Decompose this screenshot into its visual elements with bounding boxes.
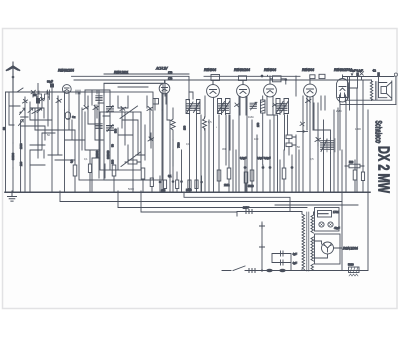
svg-text:40µF: 40µF: [334, 226, 340, 230]
resistor R15: [176, 172, 179, 192]
capacitor C17: [286, 135, 296, 155]
grid components V7: [343, 72, 395, 110]
wire mesh left2: [30, 96, 85, 160]
switch lever S5: [121, 152, 141, 167]
svg-text:5000: 5000: [128, 187, 134, 191]
wire right verticals: [357, 80, 368, 270]
wire mesh left3: [30, 120, 58, 165]
resistor R16: [188, 180, 191, 189]
resistor R1: [73, 130, 77, 191]
svg-text:1000: 1000: [355, 127, 361, 131]
svg-text:0,1: 0,1: [186, 142, 190, 146]
switch lever S4: [120, 106, 138, 119]
contact pair K4: [45, 91, 50, 100]
trimmer C28: [273, 103, 278, 107]
trimmer C7: [120, 107, 126, 111]
svg-text:30000: 30000: [11, 152, 15, 160]
wire cap verticals: [272, 254, 291, 271]
wire T2 legs: [219, 115, 236, 192]
speaker LS: [379, 73, 398, 104]
contact K1: [260, 224, 265, 229]
svg-text:0,1µF: 0,1µF: [240, 156, 247, 160]
tube V4: [237, 80, 250, 115]
wire T1 legs: [189, 92, 197, 192]
svg-text:REN904: REN904: [264, 68, 276, 72]
sub bus 0: [184, 192, 290, 212]
arrow A2: [37, 108, 42, 112]
IF transformer T1: [186, 100, 200, 115]
node junction: [261, 75, 263, 77]
wire verticals d: [321, 96, 342, 270]
resistor R10: [250, 170, 254, 191]
trimmer C5: [83, 106, 89, 110]
trimmer C13: [148, 133, 154, 148]
capacitor C24: [276, 260, 291, 265]
resistor R13: [353, 160, 357, 191]
wire speaker rails: [340, 100, 396, 104]
coil L4: [107, 125, 114, 132]
output tube V7: [337, 75, 349, 102]
grid box V6: [310, 74, 325, 78]
resistor R5: [163, 180, 166, 192]
trimmer C6: [93, 106, 99, 110]
svg-text:170: 170: [168, 76, 173, 80]
trimmer C19: [306, 99, 312, 103]
capacitor C14: [244, 160, 247, 191]
brand text Schaleco: [373, 121, 383, 144]
tube V6: [304, 79, 317, 131]
wire long verticals a: [201, 96, 209, 192]
svg-text:2MΩ: 2MΩ: [224, 183, 230, 187]
svg-text:270: 270: [256, 122, 260, 127]
resistor R20 zigzag: [203, 117, 207, 130]
wire V7 legs: [340, 88, 357, 191]
bottom wire: [302, 270, 368, 272]
ground GND1: [8, 191, 17, 201]
antenna A: [7, 62, 20, 92]
wire verticals c: [296, 76, 299, 191]
svg-text:30000: 30000: [95, 150, 99, 158]
trimmer C25: [40, 98, 45, 102]
resistor R2: [112, 165, 116, 191]
band filter box F1: [79, 92, 153, 180]
trimmer on input: [31, 90, 36, 94]
wire v6 area: [303, 96, 318, 191]
wire filter mesh 3: [118, 96, 150, 191]
resistor R17: [195, 180, 198, 189]
svg-text:4µF: 4µF: [293, 261, 298, 265]
contact K2: [260, 245, 265, 250]
rectifier box B2: [315, 234, 341, 264]
trimmer C4: [56, 96, 62, 103]
IF transformer T3: [276, 99, 289, 115]
svg-text:300: 300: [111, 159, 115, 164]
trimmer C32: [19, 120, 24, 126]
wire V2 legs: [155, 94, 173, 191]
capacitor C23: [276, 251, 291, 256]
capacitor C3: [50, 80, 54, 191]
tube V2: [159, 80, 170, 120]
svg-text:REN904: REN904: [302, 68, 314, 72]
resistor R9: [244, 172, 248, 191]
sub bus 1: [60, 191, 342, 202]
resistor R8: [227, 168, 231, 191]
transformer TR secondary 3: [311, 264, 314, 270]
svg-text:100: 100: [254, 137, 259, 141]
capacitor C21: [266, 269, 272, 272]
svg-text:300: 300: [222, 147, 227, 151]
main ground bus: [5, 191, 370, 193]
svg-text:2MΩ: 2MΩ: [336, 109, 342, 113]
svg-text:0,5: 0,5: [310, 157, 314, 161]
tube V3: [207, 81, 220, 193]
coil L3: [107, 106, 114, 113]
capacitor C11: [172, 150, 175, 192]
trimmer C29: [300, 122, 305, 126]
junction dot B: [302, 130, 304, 132]
trimmer C31: [20, 108, 26, 114]
junction dot: [261, 269, 263, 271]
mains switch S3: [222, 266, 302, 273]
svg-text:REN904: REN904: [204, 68, 216, 72]
coil L1: [12, 143, 14, 168]
wire rectifier: [314, 241, 342, 258]
resistor R6 zigzag: [171, 108, 175, 140]
svg-text:0,5: 0,5: [208, 120, 212, 124]
sub bus 3: [141, 191, 237, 212]
svg-text:220V: 220V: [243, 206, 249, 210]
choke L7: [321, 138, 336, 153]
wire left frame: [5, 92, 7, 191]
transformer TR secondary 1: [311, 212, 315, 233]
svg-text:80µF: 80µF: [47, 80, 53, 84]
capacitor C22: [279, 269, 285, 272]
sub bus 1b: [275, 204, 358, 206]
svg-text:180: 180: [182, 125, 186, 130]
transformer TR core: [307, 212, 309, 271]
wire mesh left: [21, 92, 58, 191]
svg-text:170Ω: 170Ω: [333, 211, 339, 214]
rectifier tube V8: [322, 242, 334, 254]
svg-text:RENS1264: RENS1264: [234, 68, 250, 72]
transformer TR secondary 2: [311, 237, 314, 261]
wire L6 legs: [262, 96, 264, 165]
resistor R14: [349, 267, 360, 276]
band filter box F2: [104, 83, 163, 180]
svg-text:0,1: 0,1: [168, 174, 172, 178]
coil L8 column: [96, 92, 102, 178]
svg-text:4Ω: 4Ω: [373, 69, 376, 73]
transformer TR primary: [302, 212, 305, 271]
wire verticals b: [239, 96, 257, 191]
coil L2: [20, 141, 22, 165]
capacitor C9: [125, 160, 141, 164]
coil L9: [250, 102, 257, 110]
coil L6: [261, 100, 266, 113]
wire L2 ends: [20, 120, 22, 191]
output transformer T4: [370, 80, 377, 101]
wire T3 legs: [267, 115, 288, 191]
wire grid rail: [204, 76, 300, 84]
grid box V4: [239, 76, 247, 84]
tube V1: [62, 85, 71, 110]
resistor R18: [88, 150, 91, 192]
svg-text:0,1µF 0,1µF: 0,1µF 0,1µF: [257, 156, 271, 160]
capacitor C10: [159, 176, 162, 192]
svg-text:7500: 7500: [176, 142, 180, 148]
band filter inner box: [100, 112, 141, 170]
resistor R11: [282, 150, 286, 191]
label speckle group: [47, 109, 361, 191]
wire to V5 grid: [268, 75, 271, 84]
wire top rail 2: [72, 76, 190, 100]
capacitor C26: [200, 176, 203, 192]
grid cap V2: [153, 99, 159, 105]
svg-text:RGN 1064: RGN 1064: [343, 247, 358, 251]
resistor R7: [217, 170, 221, 191]
tube V5: [264, 76, 277, 115]
svg-text:RENS1254: RENS1254: [58, 69, 74, 73]
capacitor C2: [36, 84, 40, 121]
wire mains vertical: [261, 222, 263, 270]
capacitor C18: [291, 155, 294, 191]
svg-text:•: •: [216, 126, 217, 129]
wire L1 to bus: [12, 168, 14, 191]
svg-text:ACH 2V: ACH 2V: [155, 67, 168, 71]
svg-text:50µF 0,1µF: 50µF 0,1µF: [350, 69, 363, 73]
svg-text:5000: 5000: [186, 188, 192, 192]
svg-text:0,1: 0,1: [84, 157, 88, 161]
wire filter mesh 1: [85, 90, 110, 178]
svg-text:5000: 5000: [248, 184, 254, 188]
svg-text:510: 510: [349, 160, 354, 164]
svg-text:DX 2 MW: DX 2 MW: [375, 146, 392, 193]
wire link B: [297, 131, 308, 133]
coil L5: [109, 112, 111, 170]
wire top rail 3: [164, 80, 166, 96]
svg-text:4µF: 4µF: [293, 252, 298, 256]
capacitor C12: [180, 150, 183, 192]
sub bus 2: [118, 191, 307, 208]
switch S2: [30, 108, 44, 130]
IF transformer T2: [218, 99, 231, 115]
wire choke legs: [313, 120, 331, 191]
capacitor C16: [269, 120, 272, 191]
trimmer C20: [315, 134, 321, 146]
trimmer C1: [23, 97, 28, 191]
wire top rail 4: [104, 83, 163, 87]
wire top rail 1: [74, 74, 372, 80]
mains top wire: [237, 210, 302, 217]
grid box V5: [270, 76, 287, 84]
wire filter mesh 2: [85, 105, 103, 191]
svg-text:500: 500: [114, 128, 118, 133]
arrow A1: [28, 108, 33, 112]
resistor R19: [361, 172, 364, 192]
input marks: [48, 90, 100, 94]
svg-text:170: 170: [168, 71, 173, 75]
svg-text:Schaleco: Schaleco: [373, 121, 383, 144]
svg-text:500: 500: [66, 117, 71, 121]
contact pair K3: [37, 91, 42, 100]
svg-text:300000: 300000: [106, 150, 110, 159]
input switch S1: [6, 88, 105, 143]
capacitor C15: [262, 165, 265, 191]
capacitor C30 oval: [65, 112, 76, 119]
grid box V3: [211, 75, 220, 85]
resistor R12: [345, 164, 364, 168]
svg-text:1000: 1000: [19, 143, 23, 149]
svg-text:1MΩ: 1MΩ: [248, 115, 254, 119]
svg-text:5000: 5000: [348, 263, 354, 267]
selector box B1: [315, 208, 340, 232]
svg-text:REN 1821: REN 1821: [114, 71, 128, 75]
wire V1 legs: [58, 96, 75, 191]
trimmer C8: [147, 107, 153, 111]
resistor R4: [150, 178, 153, 192]
wire left knot: [9, 92, 28, 125]
trimmer C27: [235, 103, 240, 107]
resistor R3: [141, 168, 145, 191]
